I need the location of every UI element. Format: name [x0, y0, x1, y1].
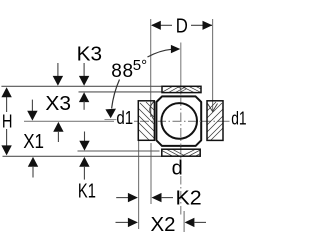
bottom stub outline: [162, 149, 200, 156]
svg-text:D: D: [176, 16, 188, 38]
dimension H: [6, 96, 8, 147]
svg-text:88: 88: [111, 61, 134, 82]
main bore circle d1: [161, 103, 197, 139]
88.5 degree leader arc lower: [112, 80, 120, 109]
arrow D right: [203, 21, 213, 30]
arrow X1 up: [28, 157, 38, 167]
svg-text:d1: d1: [116, 108, 133, 128]
extension line V2 below left stub: [150, 143, 152, 204]
arrow X2 right: [128, 218, 138, 227]
left stub socket mouth curve: [150, 102, 154, 120]
dimension X2: [116, 221, 130, 223]
line D2: bottom socket bottom extended left: [3, 155, 163, 157]
88.5 degree leader arc upper: [148, 49, 172, 57]
svg-text:X3: X3: [45, 92, 71, 115]
arrow H down: [1, 145, 11, 155]
extension line V1 below left stub: [138, 141, 140, 230]
arrow K2 right: [128, 193, 138, 202]
arrow X3 up: [53, 122, 63, 132]
right stub outline: [207, 101, 223, 141]
svg-text:K1: K1: [78, 180, 96, 203]
fitting body (chamfered octagon): [156, 96, 201, 145]
arrow 88.5 down: [105, 109, 116, 119]
svg-text:X1: X1: [23, 130, 44, 153]
arrow K2 left: [152, 193, 162, 202]
svg-text:K2: K2: [176, 187, 202, 210]
line A: top of fitting extended left: [1, 86, 162, 156]
left stub outline: [138, 101, 154, 141]
extension line V3 (X2 right): [183, 211, 185, 232]
svg-text:X2: X2: [151, 213, 176, 236]
svg-text:5°: 5°: [133, 57, 147, 74]
dimension K3 arrows: [83, 63, 85, 77]
vertical centerline (pipe axis): [180, 43, 182, 217]
dimension K2: [116, 197, 129, 199]
horizontal centerline (branch axis): [24, 120, 230, 122]
dimension X1 arrows: [31, 100, 33, 112]
dimension D: [152, 24, 212, 26]
svg-text:K3: K3: [77, 43, 102, 66]
arrow K3 up: [79, 92, 89, 102]
arrow K1 down: [79, 141, 89, 151]
body centerlines inside: [157, 97, 201, 146]
top stub outline: [162, 86, 201, 92]
arrow K3 down: [79, 76, 89, 86]
bottom stub hatch: [159, 149, 204, 159]
arrow K1 up: [79, 157, 89, 167]
dimension K1 arrows: [84, 132, 86, 142]
left stub hatch: [135, 102, 157, 143]
arrow X2 left: [185, 218, 195, 227]
arrow X3 down: [53, 76, 63, 86]
svg-text:d: d: [172, 158, 183, 180]
arrow H up: [1, 87, 11, 97]
line B: top socket collar bottom extended left: [79, 91, 163, 93]
top stub (socket) hatch: [159, 85, 204, 95]
arrow X1 down: [27, 111, 37, 121]
extension line D left (x=150.7): [139, 19, 213, 232]
right stub socket mouth V: [208, 104, 218, 112]
dimension X3 arrows: [57, 63, 59, 77]
svg-text:d1: d1: [231, 109, 246, 129]
arrow 88.5 right: [171, 45, 180, 53]
line C: [78, 150, 160, 152]
svg-text:H: H: [2, 111, 13, 131]
right stub hatch: [205, 102, 227, 142]
extension line D right (x=212.6): [212, 19, 214, 111]
arrow D left: [151, 21, 161, 30]
